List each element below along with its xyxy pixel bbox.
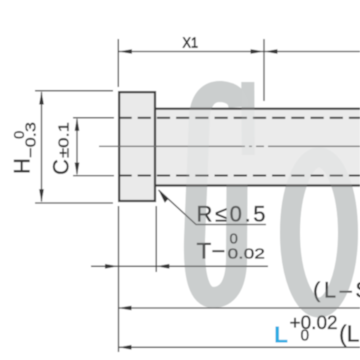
- svg-text:H: H: [10, 158, 35, 174]
- svg-text:0: 0: [301, 328, 310, 345]
- svg-text:−0.3: −0.3: [23, 122, 40, 158]
- svg-text:(L: (L: [339, 321, 360, 347]
- svg-text:X1: X1: [183, 35, 199, 52]
- svg-text:L: L: [274, 322, 288, 348]
- svg-text:C: C: [49, 159, 74, 175]
- svg-text:±0.1: ±0.1: [56, 122, 73, 158]
